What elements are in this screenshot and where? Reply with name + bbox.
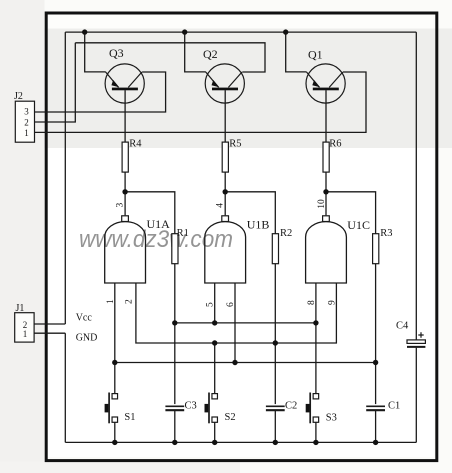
svg-text:J1: J1 [16, 303, 25, 314]
junction U1B output node [223, 189, 228, 194]
junction GND rail S2 [212, 440, 217, 445]
wire Q3 base to R4 [124, 90, 126, 142]
junction row A U1B pin5 [212, 320, 217, 325]
junction row B R2/C2 [273, 340, 278, 345]
junction row A R1/C3 [172, 320, 177, 325]
wire J1 pin2 Vcc stub [34, 323, 65, 325]
svg-text:9: 9 [327, 300, 337, 305]
wire U1A pin1 to row C [114, 283, 116, 363]
wire J1 pin1 GND stub [34, 332, 65, 334]
svg-text:R4: R4 [129, 139, 142, 150]
svg-text:J2: J2 [14, 91, 23, 102]
resistor R2 [272, 228, 292, 264]
svg-text:GND: GND [76, 333, 98, 344]
connector J1 [15, 303, 34, 342]
wire row C to S1 [114, 363, 116, 395]
switch S1 [105, 393, 136, 424]
junction row C R3/C1 [373, 360, 378, 365]
svg-text:S1: S1 [124, 412, 135, 423]
junction GND rail S3 [313, 440, 318, 445]
svg-text:6: 6 [226, 302, 236, 307]
wire R3 to row C [375, 264, 377, 363]
junction U1C output node [323, 189, 328, 194]
svg-text:U1B: U1B [247, 218, 270, 232]
svg-text:1: 1 [106, 299, 116, 304]
svg-text:4: 4 [216, 203, 226, 208]
svg-text:5: 5 [206, 302, 216, 307]
wire U1B pin5 to row A [214, 283, 216, 323]
wire S3 to GND rail [315, 422, 317, 442]
wire C4 to GND rail [415, 348, 417, 443]
wire R5 to U1B output node [224, 172, 226, 215]
wire row C to C1 [375, 363, 377, 405]
wire row A [175, 322, 316, 324]
wire Q1 base to R6 [325, 90, 327, 142]
svg-text:Q1: Q1 [308, 48, 323, 62]
wire U1A output to R1 [125, 192, 175, 234]
svg-text:S3: S3 [326, 413, 337, 424]
op-amp U1A (NAND gate) [105, 203, 170, 305]
svg-text:R6: R6 [329, 139, 341, 150]
wire J2 pin1 rail to Q1 collector [34, 72, 366, 132]
svg-text:U1A: U1A [147, 217, 171, 231]
capacitor C3 [165, 401, 196, 412]
transistor Q1 [306, 48, 345, 104]
junction GND rail C3 [172, 440, 177, 445]
transistor Q2 [203, 47, 244, 103]
svg-text:S2: S2 [225, 412, 236, 423]
op-amp U1C (NAND gate) [306, 199, 370, 305]
wire U1C pin8 to row A to S3 [315, 283, 317, 394]
svg-text:R1: R1 [177, 228, 189, 239]
resistor R3 [373, 228, 393, 264]
wire U1C output to R3 [326, 192, 376, 234]
svg-text:3: 3 [24, 107, 29, 117]
svg-text:8: 8 [307, 300, 317, 305]
wire Vcc top rail [65, 31, 416, 33]
svg-text:3: 3 [116, 203, 126, 208]
capacitor C2 [266, 401, 297, 412]
wire T2 to Q2 collector [75, 43, 265, 72]
wire row B to C2 [274, 343, 276, 404]
svg-text:C4: C4 [396, 321, 409, 332]
wire C2 to GND rail [274, 411, 276, 443]
svg-text:R2: R2 [280, 228, 292, 239]
watermark www.dz3w.com [79, 226, 233, 253]
wire C3 to GND rail [174, 411, 176, 443]
junction row A U1C pin8 [313, 320, 318, 325]
wire C1 to GND rail [375, 411, 377, 443]
wire bottom GND rail [65, 441, 416, 443]
wire J2 pin3 to Q3 collector [34, 72, 165, 112]
wire R6 to U1C output node [325, 172, 327, 215]
capacitor C1 [366, 401, 400, 412]
wire row A to C3 [174, 323, 176, 404]
wire R4 to U1A output node [124, 172, 126, 215]
wire R1 to row A [174, 264, 176, 323]
wire Q2 base to R5 [224, 90, 226, 142]
junction GND rail S1 [112, 440, 117, 445]
junction T1-Q3 emitter [82, 29, 87, 34]
junction T1-Q2 emitter [182, 29, 187, 34]
wire U1B output to R2 [225, 192, 275, 234]
svg-text:U1C: U1C [347, 218, 370, 232]
wire Q1 emitter feed [286, 32, 307, 72]
resistor R5 [222, 139, 241, 173]
svg-text:2: 2 [125, 299, 135, 304]
wire S1 to GND rail [114, 422, 116, 442]
svg-text:Q2: Q2 [203, 47, 218, 61]
wire R2 to row B [274, 264, 276, 343]
wire right riser T1 to C4 [415, 32, 417, 340]
junction row C S1 [112, 360, 117, 365]
wire S2 to GND rail [214, 422, 216, 442]
wire left Vcc riser [64, 32, 66, 324]
capacitor C4 (polarized) [396, 321, 425, 347]
switch S3 [306, 393, 337, 424]
svg-text:C1: C1 [388, 401, 400, 412]
op-amp U1B (NAND gate) [205, 203, 270, 307]
resistor R1 [172, 228, 189, 264]
svg-text:Q3: Q3 [109, 46, 124, 60]
svg-text:C3: C3 [185, 401, 197, 412]
switch S2 [205, 393, 236, 424]
svg-text:10: 10 [317, 199, 327, 209]
wire left GND riser [64, 333, 66, 442]
junction U1A output node [122, 189, 127, 194]
resistor R4 [122, 139, 142, 173]
wire U1B pin6 to row C [234, 283, 236, 363]
junction GND rail C2 [273, 440, 278, 445]
junction T1-Q1 emitter [283, 29, 288, 34]
svg-text:Vcc: Vcc [76, 313, 93, 324]
transistor Q3 [105, 46, 144, 103]
svg-text:1: 1 [24, 128, 29, 138]
wire U1A pin2 to row B to U1C pin9 [136, 283, 337, 343]
junction row C U1B pin6 [232, 360, 237, 365]
wire Q3 emitter feed [85, 32, 106, 72]
wire J2 pin2 riser to T2 [34, 43, 75, 122]
wire row C [115, 362, 376, 364]
junction GND rail C1 [373, 440, 378, 445]
wire Q2 emitter feed [185, 32, 206, 72]
svg-text:1: 1 [23, 329, 28, 339]
svg-text:C2: C2 [285, 401, 297, 412]
svg-text:R3: R3 [380, 228, 392, 239]
junction row B S2 [212, 340, 217, 345]
resistor R6 [323, 139, 342, 173]
wire row B to S2 [214, 343, 216, 394]
svg-text:R5: R5 [229, 139, 241, 150]
svg-text:2: 2 [24, 118, 29, 128]
connector J2 [14, 91, 35, 142]
